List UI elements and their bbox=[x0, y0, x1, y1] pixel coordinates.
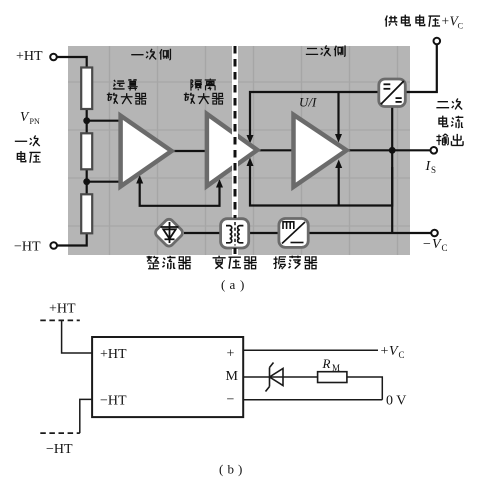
svg-text:C: C bbox=[399, 350, 405, 360]
svg-text:V: V bbox=[432, 237, 442, 252]
svg-text:M: M bbox=[332, 363, 340, 373]
svg-text:V: V bbox=[389, 344, 399, 359]
svg-text:V: V bbox=[20, 109, 30, 124]
svg-text:M: M bbox=[226, 369, 239, 384]
svg-text:a: a bbox=[230, 277, 236, 292]
svg-text:+: + bbox=[442, 14, 450, 29]
svg-text:): ) bbox=[240, 277, 244, 292]
svg-text:−HT: −HT bbox=[100, 394, 127, 409]
svg-text:): ) bbox=[238, 462, 242, 477]
svg-text:(: ( bbox=[219, 462, 223, 477]
svg-text:+: + bbox=[381, 344, 389, 359]
svg-text:S: S bbox=[431, 165, 436, 175]
svg-text:0 V: 0 V bbox=[386, 394, 406, 409]
svg-text:−HT: −HT bbox=[46, 442, 73, 457]
svg-text:U/I: U/I bbox=[299, 95, 317, 110]
svg-text:+HT: +HT bbox=[100, 347, 127, 362]
svg-text:+HT: +HT bbox=[16, 49, 43, 64]
svg-text:R: R bbox=[322, 356, 331, 371]
svg-text:PN: PN bbox=[30, 117, 40, 126]
svg-text:(: ( bbox=[221, 277, 225, 292]
svg-text:b: b bbox=[228, 462, 235, 477]
svg-text:−: − bbox=[227, 393, 235, 408]
svg-text:C: C bbox=[442, 243, 448, 253]
svg-text:C: C bbox=[458, 21, 464, 31]
svg-text:+HT: +HT bbox=[49, 302, 76, 317]
svg-text:−: − bbox=[423, 237, 431, 252]
svg-text:+: + bbox=[227, 347, 235, 362]
svg-text:−HT: −HT bbox=[14, 240, 41, 255]
